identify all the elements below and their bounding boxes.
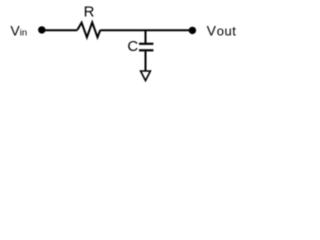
svg-text:Vout: Vout (207, 23, 237, 39)
svg-text:C: C (127, 38, 138, 55)
svg-text:R: R (84, 4, 95, 21)
